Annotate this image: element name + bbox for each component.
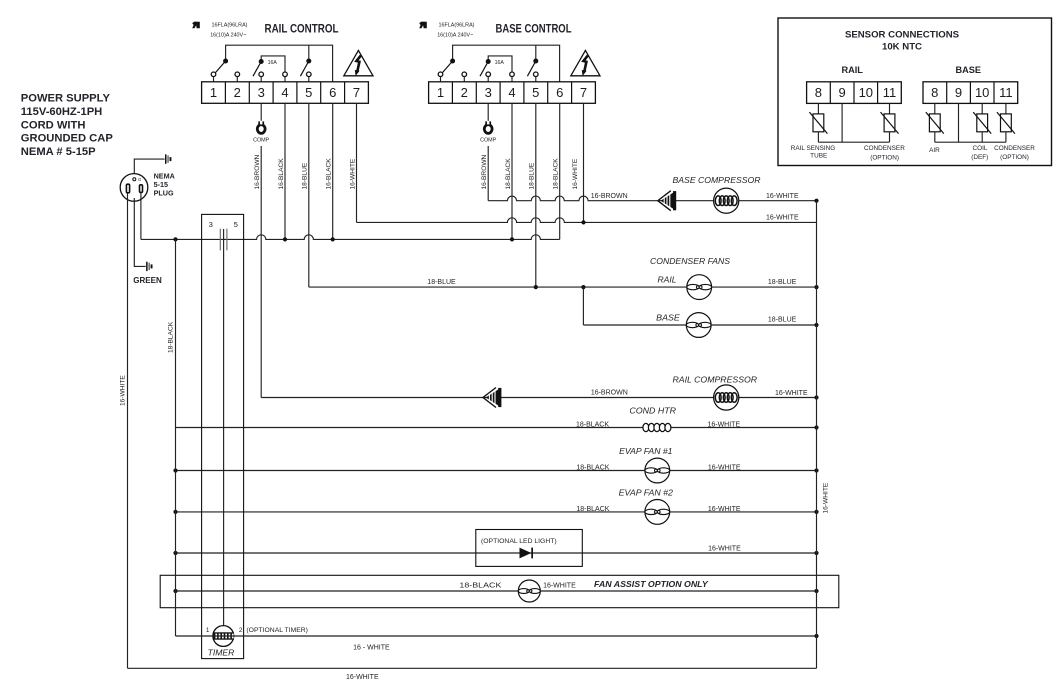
wire base sensor 10 lower [981,132,983,142]
svg-text:18-BLACK: 18-BLACK [505,158,512,190]
svg-text:16 - WHITE: 16 - WHITE [353,644,390,651]
svg-text:18-BLACK: 18-BLACK [576,422,609,429]
svg-text:16FLA(96LRA): 16FLA(96LRA) [439,23,475,29]
wire rail sensor 11 upper [889,103,891,114]
junction main line rail t6 [331,237,335,241]
base compressor overload symbol COMP [484,125,492,134]
wire 16-BROWN rail t3 down [260,146,262,398]
wire right 16-white bus [816,201,818,669]
rail sensing tube thermistor RT1 [813,114,824,132]
wire row bottom 16-white [128,667,817,669]
svg-text:1: 1 [437,85,444,100]
junction evap fan 1 at bus [814,468,818,472]
svg-text:CONDENSER FANS: CONDENSER FANS [650,256,730,266]
base terminal block TB2 [429,82,596,104]
base switch S2 16A bracket [488,56,512,72]
wire row base compressor feed [488,196,816,201]
svg-text:16-WHITE: 16-WHITE [775,390,808,397]
fan assist option box [160,575,839,607]
led diode D1 [520,548,532,559]
svg-text:10: 10 [859,85,873,100]
svg-text:RAIL CONTROL: RAIL CONTROL [265,22,339,35]
svg-text:16-WHITE: 16-WHITE [543,583,576,590]
svg-text:11: 11 [999,85,1013,100]
svg-text:CONDENSER: CONDENSER [864,145,905,152]
wire row fan assist [176,590,817,592]
svg-text:2: 2 [239,627,243,634]
rail switch S3 pivot [306,59,311,64]
NEMA 5-15 plug P1 [120,174,148,202]
svg-text:(OPTION): (OPTION) [1000,154,1029,161]
base S1 contact t1 [438,72,443,77]
svg-text:16A: 16A [495,60,505,66]
svg-text:11: 11 [883,85,897,100]
rail S1 contact t2 [235,72,240,77]
wire base fan tap down [582,287,584,325]
svg-text:BASE: BASE [956,65,982,75]
svg-text:16-WHITE: 16-WHITE [708,545,741,552]
wire rail sensor 8 lower [817,132,819,142]
rail hazard warning triangle [344,50,373,75]
base switch S1 blade [442,61,453,74]
junction evap fan 2 at bus [814,510,818,514]
svg-text:CONDENSER: CONDENSER [994,145,1035,152]
base switch S2 pivot [486,59,491,64]
junction base t7 white on return row [581,220,585,224]
svg-text:16A: 16A [268,60,278,66]
junction evap fan 2 left [173,510,177,514]
svg-text:18-BLUE: 18-BLUE [768,279,797,286]
svg-text:2: 2 [461,85,468,100]
svg-text:18-BLACK: 18-BLACK [553,158,560,190]
wire row evap fan 2 [176,511,817,513]
rail S2 contact t4 [283,72,288,77]
svg-text:6: 6 [329,85,336,100]
svg-text:5: 5 [234,220,238,229]
power supply note text [21,93,114,159]
svg-text:18-BLUE: 18-BLUE [768,317,797,324]
svg-text:16FLA(96LRA): 16FLA(96LRA) [212,23,248,29]
wire base sensor 11 lower [1005,132,1007,142]
svg-text:BASE COMPRESSOR: BASE COMPRESSOR [673,175,761,185]
svg-text:(OPTIONAL TIMER): (OPTIONAL TIMER) [246,627,308,634]
wire 16-WHITE base t7 down [583,103,585,222]
junction base fan row at bus [814,323,818,327]
svg-text:16-BROWN: 16-BROWN [254,154,261,189]
svg-text:COIL: COIL [973,145,988,152]
svg-text:TIMER: TIMER [208,647,235,657]
svg-text:9: 9 [955,85,962,100]
rail top feed wire [226,45,333,82]
wire rail sensor 9 down [841,103,843,142]
quick disconnect rail compressor [483,388,496,408]
svg-text:2: 2 [234,85,241,100]
base top feed wire [453,45,560,82]
svg-text:3: 3 [209,220,213,229]
wire rail sensor 8 upper [817,103,819,114]
base control rating icon [419,22,427,29]
svg-text:8: 8 [815,85,822,100]
svg-text:16-BLACK: 16-BLACK [278,158,285,190]
svg-text:G: G [138,177,141,182]
evap fan 1 motor [645,458,670,483]
wire row 16-white return [357,218,817,223]
svg-text:4: 4 [281,85,288,100]
junction base compressor feed at bus [814,199,818,203]
junction led row at bus [814,551,818,555]
svg-text:16(10)A 240V~: 16(10)A 240V~ [437,32,473,38]
svg-text:18-BLACK: 18-BLACK [576,506,609,513]
svg-text:EVAP FAN #2: EVAP FAN #2 [619,487,674,497]
rail S2 contact t3 [259,72,264,77]
svg-text:NEMA # 5-15P: NEMA # 5-15P [21,146,96,158]
wire plug ground to green quick connect [134,198,145,266]
rail switch S2 blade [253,62,261,77]
condenser heater element [643,423,649,431]
junction timer row at bus [814,634,818,638]
svg-text:TUBE: TUBE [810,153,827,160]
base switch S3 drop [535,45,537,59]
wire base sensor common [935,141,1006,143]
junction base t5 blue on rail fan row [534,285,538,289]
junction base fan tap [581,285,585,289]
wire row main line from plug [141,235,560,240]
svg-text:RAIL: RAIL [658,274,677,284]
svg-text:16-WHITE: 16-WHITE [119,375,126,406]
svg-text:16-WHITE: 16-WHITE [823,482,830,513]
svg-text:18-BLUE: 18-BLUE [529,162,536,189]
timer motor TM1 [213,626,234,647]
svg-text:5: 5 [532,85,539,100]
svg-text:16-WHITE: 16-WHITE [708,465,741,472]
quick disconnect base compressor [658,191,671,211]
wire row rail compressor [261,397,816,399]
wire base sensor 8 upper [934,103,936,114]
svg-text:7: 7 [353,85,360,100]
svg-text:18-BLUE: 18-BLUE [427,279,456,286]
svg-text:18-BLUE: 18-BLUE [302,162,309,189]
base air thermistor RT3 [929,114,940,132]
wire base sensor 11 upper [1005,103,1007,114]
wire 18-BLACK base t4 down [511,103,513,239]
wire row evap fan 1 [176,470,817,472]
svg-text:GROUNDED CAP: GROUNDED CAP [21,133,114,145]
rail terminal block TB1 [202,82,369,104]
junction main line rail t4 [283,237,287,241]
svg-text:COND HTR: COND HTR [629,406,676,416]
wire timer middle conductor [223,229,225,626]
base condenser thermistor RT5 [1001,114,1012,132]
svg-text:RAIL: RAIL [841,65,863,75]
svg-text:16-WHITE: 16-WHITE [346,674,379,681]
svg-text:3: 3 [485,85,492,100]
svg-text:POWER SUPPLY: POWER SUPPLY [21,93,111,105]
base sensor terminal block TB4 [923,82,1018,104]
wire base sensor 9 down [958,103,960,142]
svg-text:16-WHITE: 16-WHITE [766,214,799,221]
wire 16-BROWN base t3 down [487,146,489,201]
junction main line base t4 [510,237,514,241]
svg-text:10: 10 [975,85,989,100]
svg-text:6: 6 [556,85,563,100]
wire plug top to line-side quick connect [134,159,164,177]
fan assist motor [518,580,540,602]
rail sensor terminal block TB3 [807,82,902,104]
base switch S3 blade [527,61,535,76]
svg-text:RAIL SENSING: RAIL SENSING [791,145,836,152]
svg-text:4: 4 [508,85,515,100]
wire row base condenser fan [583,324,816,326]
junction rail fan row at bus [814,285,818,289]
rail switch S1 pivot [223,59,228,64]
svg-text:5: 5 [305,85,312,100]
junction rail compressor row at bus [814,395,818,399]
svg-text:BASE: BASE [656,312,680,322]
rail S3 contact t5 [307,72,312,77]
svg-text:18-BLACK: 18-BLACK [167,321,174,353]
svg-text:16-WHITE: 16-WHITE [572,158,579,189]
wire base sensor 8 lower [934,132,936,142]
svg-text:COMP: COMP [253,138,270,144]
svg-text:BASE CONTROL: BASE CONTROL [496,22,572,35]
rail S1 contact t1 [211,72,216,77]
svg-text:18-BLACK: 18-BLACK [576,465,609,472]
base switch S2 blade [480,62,488,77]
svg-text:(OPTION): (OPTION) [870,154,899,161]
green ground quick-connect pin [146,262,148,271]
rail compressor motor M2 [714,385,739,410]
wire row led light [176,552,817,554]
optional led light box [476,530,583,567]
base S2 contact t3 [486,72,491,77]
base compressor motor M1 [714,188,739,213]
rail switch S3 drop [308,45,310,59]
svg-text:GREEN: GREEN [133,276,162,285]
svg-text:16-BROWN: 16-BROWN [591,193,628,200]
svg-text:16-BROWN: 16-BROWN [591,390,628,397]
base hazard warning triangle [571,50,600,75]
rail control rating icon [192,22,200,29]
wire 18-black vertical feed [175,239,177,636]
evap fan 2 motor [645,500,670,525]
svg-text:115V-60HZ-1PH: 115V-60HZ-1PH [21,106,102,118]
timer enclosure tall box [202,214,244,658]
base S2 contact t4 [510,72,515,77]
wire plug line down [140,193,142,240]
junction fan assist left [173,589,177,593]
wire 18-BLUE rail t5 down [308,103,310,287]
base switch S3 pivot [533,59,538,64]
junction cond htr row at bus [814,425,818,429]
wire 18-BLACK base t6 down [559,103,561,239]
wire rail sensor 11 lower [889,132,891,142]
base switch S1 pivot [450,59,455,64]
sensor connections enclosure [778,18,1052,166]
svg-text:16-WHITE: 16-WHITE [766,193,799,200]
wire rail t3 to comp symbol [260,103,262,121]
svg-text:16-BROWN: 16-BROWN [481,154,488,189]
svg-text:16-BLACK: 16-BLACK [326,158,333,190]
svg-text:AIR: AIR [929,147,940,154]
base S3 contact t5 [534,72,539,77]
svg-text:EVAP FAN #1: EVAP FAN #1 [619,446,673,456]
junction fan assist at bus [814,589,818,593]
base coil defrost thermistor RT4 [977,114,988,132]
svg-text:COMP: COMP [480,138,497,144]
svg-text:SENSOR CONNECTIONS: SENSOR CONNECTIONS [845,30,960,41]
svg-text:CORD WITH: CORD WITH [21,119,86,131]
connector plates [219,229,221,251]
rail condenser fan motor [687,275,712,300]
svg-text:1: 1 [206,627,210,634]
svg-text:16(10)A 240V~: 16(10)A 240V~ [210,32,246,38]
svg-text:9: 9 [838,85,845,100]
wire rail sensor common [818,141,889,143]
svg-text:8: 8 [931,85,938,100]
svg-text:FAN ASSIST OPTION ONLY: FAN ASSIST OPTION ONLY [594,579,709,589]
rail switch S2 16A bracket [261,56,285,72]
svg-text:16-WHITE: 16-WHITE [707,422,740,429]
wire base sensor 10 upper [981,103,983,114]
base condenser fan motor [686,313,711,338]
svg-text:1: 1 [210,85,217,100]
svg-text:10K NTC: 10K NTC [882,42,922,53]
wire 18-BLUE base t5 down [535,103,537,287]
svg-text:(OPTIONAL LED LIGHT): (OPTIONAL LED LIGHT) [481,538,557,545]
svg-text:16-WHITE: 16-WHITE [708,506,741,513]
base S1 contact t2 [462,72,467,77]
line-side quick-connect pin [165,154,167,163]
junction evap fan 1 left [173,468,177,472]
wire 16-white left bus [127,194,129,669]
rail compressor overload symbol COMP [257,125,265,134]
junction main line 18-black [173,237,177,241]
wire 16-BLACK rail t6 down [332,103,334,239]
wire row rail condenser fan [309,286,817,288]
rail switch S2 pivot [259,59,264,64]
wire 16-WHITE rail t7 down [356,103,358,222]
svg-text:(DEF): (DEF) [971,154,988,161]
wire base t3 to comp symbol [487,103,489,121]
junction led row left [173,551,177,555]
svg-text:3: 3 [258,85,265,100]
svg-text:7: 7 [580,85,587,100]
svg-text:PLUG: PLUG [154,189,174,198]
rail switch S3 blade [300,61,308,76]
svg-text:16-WHITE: 16-WHITE [349,158,356,189]
svg-text:18-BLACK: 18-BLACK [459,583,501,590]
wire row condenser heater [176,427,817,429]
rail switch S1 blade [215,61,226,74]
rail condenser thermistor RT2 [884,114,895,132]
wire row timer [176,635,817,637]
wire 16-BLACK rail t4 down [284,103,286,239]
svg-text:RAIL COMPRESSOR: RAIL COMPRESSOR [673,375,758,385]
